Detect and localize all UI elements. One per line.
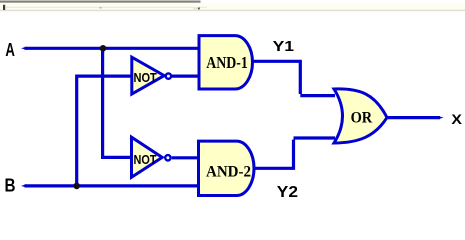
svg-text:AND-2: AND-2 bbox=[206, 164, 251, 181]
svg-text:B: B bbox=[5, 175, 16, 195]
svg-text:AND-1: AND-1 bbox=[206, 53, 248, 72]
svg-text:OR: OR bbox=[351, 108, 373, 126]
svg-text:Y2: Y2 bbox=[277, 184, 298, 201]
svg-text:NOT: NOT bbox=[134, 153, 157, 167]
svg-text:X: X bbox=[451, 111, 462, 127]
svg-text:NOT: NOT bbox=[134, 71, 158, 85]
svg-text:A: A bbox=[5, 40, 15, 60]
svg-text:Y1: Y1 bbox=[273, 39, 295, 55]
